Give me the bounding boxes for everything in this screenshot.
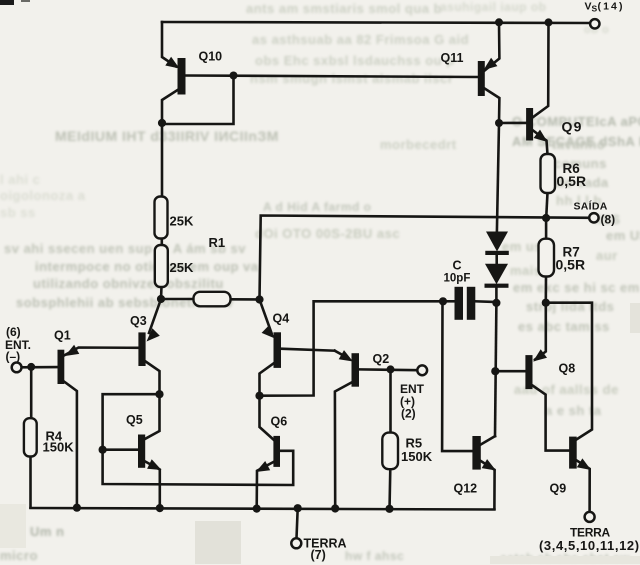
wire diode node down to Q8 base node and Q12 collector — [495, 303, 496, 436]
wire Q4 base to Q2 emitter — [281, 349, 335, 351]
junction dot rail Q6 emitter — [253, 505, 261, 513]
capacitor C left plate — [455, 287, 464, 320]
resistor R1 lower 25K body — [155, 245, 168, 287]
wire capacitor left lead — [443, 300, 455, 303]
terminal ENT(+) circle — [417, 365, 427, 375]
wire R4 top lead — [30, 367, 33, 419]
wire Q12 base riser — [442, 301, 472, 451]
svg-text:C: C — [453, 259, 462, 273]
junction dot capacitor left / Q12 base — [439, 297, 447, 305]
terminal VS(14) circle — [590, 19, 599, 28]
wire Q4 collector node to Q12 base trunk — [260, 301, 444, 395]
resistor R5 body — [382, 433, 398, 470]
transistor Q9 bottom emitter arrow — [577, 458, 591, 470]
transistor Q1 emitter arrow — [65, 345, 79, 356]
svg-text:Q8: Q8 — [559, 362, 576, 376]
resistor feedback 25K horizontal body — [194, 292, 231, 307]
junction dot rail Q5 emitter — [156, 504, 164, 512]
svg-text:25K: 25K — [170, 214, 194, 229]
transistor Q9 bottom bar — [569, 437, 577, 469]
svg-text:Q2: Q2 — [373, 352, 390, 366]
wire between diodes — [495, 255, 498, 264]
wire node A to horizontal resistor — [161, 298, 194, 301]
transistor Q4 bar — [274, 332, 282, 368]
black scan mark top-left corner — [0, 0, 14, 5]
wire Q5 collector — [145, 394, 159, 439]
wire capacitor right lead — [475, 300, 497, 303]
wire Q5 base to Q6 base — [103, 450, 294, 485]
wire Q4 collector — [260, 364, 274, 396]
wire R5 top lead — [389, 369, 392, 433]
svg-text:(6): (6) — [6, 325, 21, 339]
diode D2 triangle — [485, 264, 508, 285]
wire ground rail — [31, 508, 495, 510]
junction dot rail Q1 collector — [73, 504, 81, 512]
resistor R4 body — [24, 418, 37, 456]
wire Q10 base-collector tie — [162, 76, 234, 125]
svg-text:0,5R: 0,5R — [556, 257, 586, 273]
junction dot rail Q2 collector — [331, 504, 339, 512]
svg-text:(8): (8) — [601, 213, 616, 227]
transistor Q5 emitter arrow — [147, 459, 161, 470]
wire Q8 base from diode node — [495, 370, 525, 373]
wire R7 top lead — [545, 218, 548, 239]
wire Q6 emitter drop — [257, 462, 274, 509]
junction dot capacitor right / diode bottom — [492, 299, 500, 307]
transistor Q1 bar — [58, 350, 65, 384]
wire Q11 collector node to Q9 base — [499, 122, 526, 125]
resistor R1 upper 25K body — [155, 197, 168, 239]
wire R4 bottom lead — [29, 456, 32, 508]
svg-text:Q1: Q1 — [54, 329, 71, 343]
svg-text:Q9: Q9 — [550, 482, 567, 496]
wire top supply rail — [162, 22, 590, 23]
wire Q1 base from input terminal — [22, 366, 58, 369]
transistor Q8 bar — [525, 355, 532, 389]
wire TERRA(7) branch — [297, 508, 298, 538]
svg-text:Q12: Q12 — [454, 482, 478, 496]
wire diode chain top from Q11/Q9 node — [497, 123, 499, 232]
svg-text:150K: 150K — [43, 440, 75, 455]
junction dot Q10 base tie — [230, 72, 238, 80]
wire Q5 base-collector tie loop — [103, 394, 160, 450]
resistor R7 body — [539, 239, 555, 277]
junction dot R7 bottom / Q8 emitter — [542, 299, 550, 307]
transistor Q2 emitter arrow — [339, 350, 353, 361]
wire R6 bottom lead to output node — [546, 193, 547, 219]
svg-text:Q11: Q11 — [441, 51, 464, 65]
junction dot Q10 collector — [158, 119, 166, 127]
svg-text:(7): (7) — [311, 548, 326, 562]
svg-text:(3,4,5,10,11,12): (3,4,5,10,11,12) — [539, 538, 640, 553]
svg-text:(2): (2) — [401, 407, 416, 421]
junction dot rail TERRA branch — [294, 504, 302, 512]
wire Q10 emitter drop from rail — [162, 22, 176, 67]
transistor Q5 bar — [138, 435, 145, 468]
svg-text:V: V — [585, 1, 592, 13]
BACKGROUND bleed-through text layer (decorative) — [246, 1, 442, 16]
wire Q12 collector diagonal — [481, 436, 495, 444]
transistor Q3 bar — [138, 332, 145, 366]
wire R1 bottom lead — [160, 287, 163, 300]
wire R7 bottom lead — [544, 276, 547, 302]
transistor Q12 bar — [472, 436, 480, 470]
junction dot Q4 collector node — [255, 392, 263, 400]
wire Q3 emitter diagonal — [149, 299, 161, 333]
wire Q10/Q11 base bus — [186, 76, 478, 78]
junction dot Q5 base loop — [99, 446, 107, 454]
junction dot output node R6/R7 — [542, 214, 550, 222]
transistor Q9 top emitter arrow — [534, 130, 548, 142]
transistor Q12 emitter arrow — [482, 459, 496, 470]
resistor R6 body — [541, 154, 556, 193]
transistor Q6 emitter arrow — [256, 461, 270, 472]
transistor Q2 bar — [352, 353, 360, 387]
wire Q11 collector — [485, 89, 500, 124]
wire Q4 emitter diagonal — [260, 300, 272, 334]
svg-text:(14): (14) — [598, 1, 625, 13]
diode D2 cathode bar — [485, 284, 509, 288]
capacitor C right plate — [467, 287, 476, 320]
svg-text:25K: 25K — [170, 260, 194, 275]
wire R1 middle lead — [161, 238, 164, 246]
terminal TERRA(7) circle — [291, 538, 301, 548]
svg-text:Q10: Q10 — [199, 50, 223, 64]
wire R1 top lead — [161, 123, 164, 197]
terminal SAIDA circle — [589, 213, 598, 222]
junction dot rail R5 — [385, 505, 393, 513]
junction dot node A Q3 emitter — [157, 295, 165, 303]
diode D1 cathode bar — [485, 251, 509, 255]
light gray bleed boxes — [195, 521, 241, 564]
transistor Q6 bar — [273, 436, 280, 467]
svg-text:SAÍDA: SAÍDA — [574, 200, 608, 213]
svg-text:(–): (–) — [6, 350, 21, 364]
transistor Q8 emitter arrow — [533, 349, 547, 361]
wire Q2 base to ENT+ terminal — [359, 368, 417, 371]
svg-text:Q9: Q9 — [562, 119, 583, 135]
terminal ENT(-) circle — [12, 363, 22, 373]
wire Q1 emitter to Q3 base — [64, 348, 138, 356]
wire feedback riser from node B to output line — [260, 216, 591, 300]
transistor Q4 emitter arrow — [262, 325, 275, 338]
junction dot Q2 base / R5 — [387, 365, 395, 373]
svg-text:10pF: 10pF — [444, 273, 471, 285]
svg-text:Q6: Q6 — [271, 415, 288, 429]
svg-text:R1: R1 — [209, 235, 226, 250]
wire Q12 emitter drop to ground rail — [481, 461, 495, 509]
wire Q11 emitter to rail — [485, 22, 500, 70]
transistor Q11 bar — [478, 61, 485, 96]
wire Q3 collector — [146, 362, 160, 395]
wire Q9 bottom emitter to TERRA terminal — [577, 461, 590, 512]
wire horizontal resistor to node B — [230, 298, 260, 301]
junction dot top rail / Q9 collector — [545, 18, 553, 26]
transistor Q11 emitter arrow — [484, 58, 498, 70]
transistor Q10 emitter arrow — [165, 57, 179, 69]
wire Q9 collector to rail — [533, 22, 548, 117]
wire R5 bottom lead — [388, 469, 391, 511]
svg-text:Q5: Q5 — [126, 413, 143, 427]
wire Q8 collector to Q9 base — [533, 386, 570, 451]
svg-text:0,5R: 0,5R — [557, 173, 587, 189]
junction dot Q3 collector / Q5 — [155, 390, 163, 398]
junction dot input node / R4 — [27, 363, 35, 371]
junction dot Q8 base / Q12 collector — [491, 367, 499, 375]
diode D1 triangle — [486, 232, 508, 252]
terminal TERRA bottom-right circle — [585, 512, 595, 522]
junction dot top rail / Q11 emitter — [495, 18, 503, 26]
wire Q2 collector — [335, 383, 352, 511]
wire Q5 emitter drop — [145, 462, 160, 509]
wire Q2 emitter diagonal — [335, 351, 348, 358]
junction dot node B Q4 emitter — [255, 295, 263, 303]
wire Q10 collector — [162, 90, 178, 123]
transistor Q9 top bar — [526, 108, 533, 141]
transistor Q3 emitter arrow — [147, 328, 160, 341]
wire Q1 collector — [64, 382, 77, 508]
svg-text:150K: 150K — [401, 449, 433, 464]
wire diode chain bottom — [495, 288, 498, 303]
transistor Q10 bar — [178, 58, 186, 95]
svg-text:Q3: Q3 — [130, 314, 147, 328]
svg-text:Q4: Q4 — [273, 312, 290, 326]
junction dot Q11 collector / Q9 base / diodes — [495, 119, 503, 127]
wire Q8 emitter from R7 node — [535, 303, 546, 360]
wire R7 node to Q9 collector right branch — [546, 303, 592, 440]
wire Q6 collector — [260, 396, 274, 440]
wire Q9 emitter to R6 — [533, 131, 547, 155]
